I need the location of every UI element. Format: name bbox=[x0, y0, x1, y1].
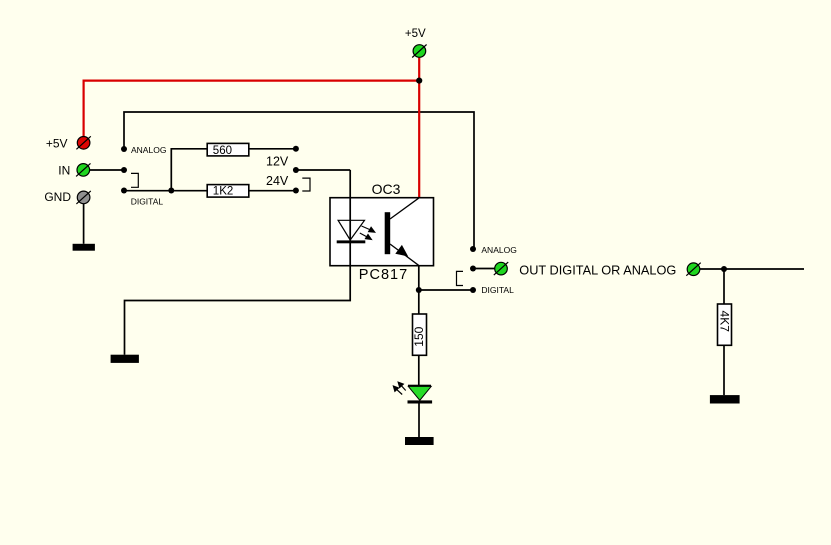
svg-text:+5V: +5V bbox=[46, 137, 68, 151]
svg-text:12V: 12V bbox=[266, 155, 289, 169]
svg-text:560: 560 bbox=[213, 145, 232, 157]
svg-text:OC3: OC3 bbox=[372, 181, 401, 197]
svg-text:DIGITAL: DIGITAL bbox=[131, 197, 164, 207]
svg-text:GND: GND bbox=[44, 190, 71, 204]
svg-text:150: 150 bbox=[412, 326, 426, 346]
svg-text:1K2: 1K2 bbox=[213, 186, 233, 198]
svg-text:IN: IN bbox=[58, 164, 70, 178]
svg-text:PC817: PC817 bbox=[359, 267, 408, 283]
svg-text:ANALOG: ANALOG bbox=[131, 145, 166, 155]
svg-text:DIGITAL: DIGITAL bbox=[481, 285, 514, 295]
svg-text:OUT DIGITAL OR ANALOG: OUT DIGITAL OR ANALOG bbox=[519, 262, 676, 277]
svg-text:ANALOG: ANALOG bbox=[481, 245, 516, 255]
svg-text:+5V: +5V bbox=[405, 28, 426, 40]
svg-text:4K7: 4K7 bbox=[717, 311, 731, 333]
svg-text:24V: 24V bbox=[266, 174, 289, 188]
